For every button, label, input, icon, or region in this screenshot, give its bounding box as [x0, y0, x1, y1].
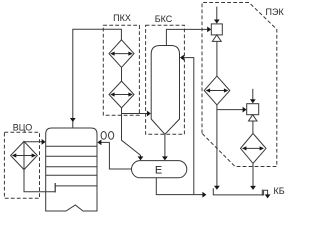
pipe VCO diamond bottom into reactor bottom: [24, 170, 55, 192]
dashed boundary PEK polygon with cut corners: [202, 3, 277, 167]
control valve U1 body: [211, 24, 222, 35]
pipe E bottom to collector: [156, 178, 203, 195]
svg-text:ПКХ: ПКХ: [113, 13, 131, 23]
instrument circle 2: [109, 132, 114, 140]
pipe valve 2 down to PEK-2: [252, 121, 254, 133]
dashed boundary BKS box: [146, 25, 185, 134]
instrument circle 1: [101, 132, 106, 140]
double arrow PKH-2: [110, 92, 133, 96]
pipe input arrow into valve 1 top: [216, 7, 218, 20]
pipe BKS vessel top to valve 1: [166, 29, 207, 45]
arrowhead E bottom line pointing right: [202, 192, 206, 198]
double arrow PEK-2: [242, 146, 264, 150]
pipe recycle from bottom up into BKS vessel right side: [183, 58, 194, 195]
control valve U2 body: [247, 104, 259, 115]
reactor tray 4: [46, 174, 97, 176]
svg-text:КБ: КБ: [274, 186, 285, 196]
reactor tray 1: [46, 145, 97, 147]
pipe reactor top feed from PKH: [73, 29, 122, 127]
svg-text:Е: Е: [155, 164, 162, 176]
svg-text:ПЭК: ПЭК: [266, 7, 285, 17]
heat exchanger diamond PEK-2: [241, 133, 267, 163]
arrowhead into valve 1 left: [207, 27, 211, 33]
arrowhead into valve 1 top: [214, 20, 220, 24]
pipe BKS cone to E top: [164, 134, 166, 157]
pipe PEK-1 down to bottom collector: [216, 105, 218, 186]
arrowhead into valve 2 left: [243, 107, 247, 113]
dashed boundary PKH box: [103, 25, 139, 115]
pipe input arrow into valve 2 top: [252, 89, 254, 100]
double arrow PKH-1: [110, 52, 133, 56]
KB flange tick: [261, 190, 263, 196]
reactor internal riser stub: [54, 183, 56, 193]
heat exchanger diamond PKH-2: [109, 81, 134, 108]
drum E vessel: [132, 161, 187, 178]
arrowhead into BKS vessel left: [147, 111, 151, 117]
arrowhead down to KB: [265, 194, 271, 198]
heat exchanger diamond VCO: [11, 141, 38, 169]
svg-text:ВЦО: ВЦО: [13, 123, 32, 133]
arrowhead into reactor top: [70, 118, 76, 122]
arrowhead into valve 2 top: [250, 99, 256, 103]
control valve U2 seat triangle: [249, 115, 258, 121]
heat exchanger diamond PKH-1: [109, 40, 134, 68]
reactor tray 2: [46, 155, 97, 157]
collector pipe to KB: [213, 188, 267, 195]
pipe branch to valve 2: [217, 109, 243, 111]
pipe through VCO diamond: [23, 141, 25, 169]
arrowhead into E top left: [138, 156, 144, 160]
heat exchanger diamond PEK-1: [204, 76, 230, 105]
pipe from E area into reactor right side: [101, 142, 132, 169]
reactor bottom tray: [55, 185, 97, 187]
double arrow PEK-1: [206, 88, 229, 92]
pipe PKH down to E with diagonal: [122, 108, 141, 157]
arrowhead into BKS vessel right: [180, 55, 184, 61]
arrowhead into E top right: [162, 156, 168, 160]
double arrow VCO: [12, 153, 36, 157]
arrowhead into reactor left: [42, 139, 46, 145]
pipe branch into BKS vessel left side: [122, 113, 148, 115]
reactor tray 3: [46, 166, 97, 168]
dashed boundary VCO box: [4, 132, 39, 198]
BKS column vessel: [151, 46, 179, 135]
arrowhead down at collector from valve line: [214, 186, 220, 190]
reactor column vessel: [46, 128, 97, 211]
pipe between PKH diamonds: [121, 67, 123, 81]
control valve U1 seat triangle: [212, 35, 221, 42]
pipe PEK-2 down to collector: [252, 163, 254, 186]
arrowhead into reactor right: [97, 140, 101, 146]
pipe valve 1 down to PEK exchanger: [216, 41, 218, 76]
pipe VCO diamond to reactor left side: [24, 141, 42, 143]
arrowhead down at collector from PEK-2: [250, 186, 256, 190]
svg-text:БКС: БКС: [155, 14, 173, 24]
